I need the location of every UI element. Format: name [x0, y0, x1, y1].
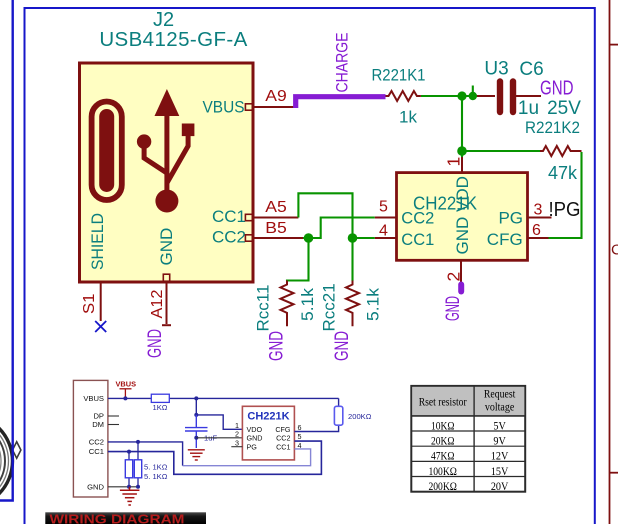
inset chip pin numbers — [235, 421, 302, 450]
no-connect X — [95, 321, 106, 332]
svg-text:25V: 25V — [547, 98, 581, 119]
logo arcs bottom-left (clipped circular emblem) — [0, 415, 21, 508]
inset ground (cap) — [188, 450, 205, 460]
svg-text:2: 2 — [444, 272, 464, 282]
resistor Rcc21 — [346, 281, 359, 327]
svg-text:4: 4 — [379, 223, 388, 240]
inset resistor 1K — [151, 394, 169, 402]
svg-text:CC1: CC1 — [276, 442, 290, 451]
svg-text:CC2: CC2 — [276, 434, 290, 443]
svg-text:R221K2: R221K2 — [525, 118, 580, 137]
pin CC1 A5 — [245, 214, 298, 220]
inset junction CC1 — [127, 450, 131, 454]
svg-text:A5: A5 — [265, 199, 287, 216]
svg-text:2: 2 — [235, 430, 239, 439]
svg-text:!PG: !PG — [549, 199, 581, 221]
svg-text:CC2: CC2 — [212, 228, 246, 247]
IC U3 CH221K body — [397, 173, 528, 261]
svg-text:1: 1 — [444, 157, 464, 167]
capacitor C6 — [477, 82, 541, 113]
wire VDD net vertical — [461, 96, 463, 157]
svg-text:S1: S1 — [81, 293, 98, 314]
svg-text:1u: 1u — [518, 98, 539, 119]
pin CC2 B5 — [245, 235, 303, 241]
svg-text:CC1: CC1 — [212, 207, 246, 226]
pin 1 VDD stub — [461, 157, 463, 173]
inset DP DM stubs — [108, 416, 119, 425]
pin 3 PG stub — [528, 217, 552, 219]
bus CHARGE (purple) — [296, 97, 386, 108]
USB receptacle pill glyph — [92, 102, 122, 201]
inset junction CC2 — [136, 440, 140, 444]
svg-text:GND: GND — [145, 329, 166, 358]
junction — [457, 146, 467, 156]
svg-text:5.1k: 5.1k — [364, 287, 383, 321]
svg-text:PG: PG — [498, 209, 523, 228]
wire R221K2 to CFG — [549, 152, 582, 238]
pin GND A12 (bottom) — [162, 274, 171, 325]
connector J2 body — [80, 63, 254, 282]
svg-text:47KΩ: 47KΩ — [431, 451, 455, 463]
svg-text:47k: 47k — [548, 163, 578, 183]
svg-text:PG: PG — [247, 442, 258, 451]
inset wire CC2(conn) to CC1(chip), light — [108, 442, 183, 466]
pin 6 CFG stub — [528, 237, 549, 239]
inset junctions on GND — [127, 485, 131, 489]
inset 5.1K resistors — [128, 452, 130, 487]
svg-text:15V: 15V — [491, 466, 509, 478]
svg-text:CC2: CC2 — [401, 209, 434, 228]
svg-text:3: 3 — [235, 438, 239, 447]
svg-text:6: 6 — [532, 222, 541, 239]
svg-text:C: C — [611, 242, 618, 259]
wire B5 to pin5 — [303, 218, 375, 239]
svg-text:VBUS: VBUS — [203, 98, 245, 117]
resistor Rcc11 — [281, 281, 294, 327]
junction — [304, 233, 314, 243]
pin 2 GND stub — [460, 260, 462, 283]
svg-text:5. 1KΩ: 5. 1KΩ — [144, 463, 168, 472]
svg-text:A12: A12 — [149, 289, 166, 318]
svg-text:DM: DM — [92, 420, 104, 429]
wire to Rcc11 — [287, 238, 309, 281]
pin VBUS A9 — [245, 104, 297, 110]
inset junction — [194, 413, 198, 417]
svg-text:WIRING DIAGRAM: WIRING DIAGRAM — [50, 512, 185, 524]
svg-text:GND: GND — [332, 331, 353, 361]
svg-text:GND: GND — [247, 434, 263, 443]
wire to Rcc21 — [351, 238, 353, 281]
adjacent sheet right (dark red) — [610, 0, 618, 524]
pin 5 CC2 stub — [375, 217, 397, 219]
svg-text:GND: GND — [87, 483, 104, 492]
inset wire CFG to 200K — [294, 398, 338, 431]
junction — [457, 91, 466, 100]
svg-text:CFG: CFG — [487, 230, 523, 249]
svg-text:B5: B5 — [265, 220, 287, 237]
svg-text:5V: 5V — [493, 420, 506, 432]
svg-text:GND: GND — [540, 78, 574, 100]
svg-text:12V: 12V — [491, 451, 509, 463]
svg-text:R221K1: R221K1 — [372, 66, 426, 85]
svg-text:9V: 9V — [493, 435, 506, 447]
svg-text:U3: U3 — [484, 59, 508, 80]
inset VBUS power flag — [120, 389, 132, 399]
resistor R221K1 — [386, 91, 421, 101]
inset wire chip GND pin2 — [196, 437, 242, 439]
svg-text:CC2: CC2 — [89, 437, 104, 446]
wire stub up — [472, 86, 474, 97]
junction — [348, 233, 358, 243]
svg-text:VBUS: VBUS — [83, 394, 104, 403]
inset chip CH221K box — [242, 406, 294, 460]
svg-text:5. 1KΩ: 5. 1KΩ — [144, 472, 168, 481]
svg-text:CC1: CC1 — [89, 447, 104, 456]
inset pin3 stub — [231, 446, 242, 448]
inset resistor 200K — [334, 406, 342, 425]
svg-text:6: 6 — [298, 423, 302, 432]
svg-text:Rset resistor: Rset resistor — [419, 397, 467, 409]
svg-text:Rcc21: Rcc21 — [320, 283, 339, 331]
inset junction — [123, 396, 127, 400]
inset ground (main) — [120, 487, 139, 505]
wire A5 to pin4 (over the top) — [298, 193, 352, 238]
svg-text:200KΩ: 200KΩ — [428, 481, 457, 493]
svg-text:GND: GND — [267, 331, 288, 361]
svg-text:GND: GND — [443, 296, 464, 321]
bus stub (purple) — [458, 285, 464, 292]
svg-text:CC1: CC1 — [401, 230, 434, 249]
svg-text:20V: 20V — [491, 481, 509, 493]
svg-text:200KΩ: 200KΩ — [348, 412, 372, 421]
USB trident glyph — [137, 89, 195, 213]
inset wire CC1(conn) to CC2(chip), dark — [108, 441, 322, 474]
inset capacitor 1uF — [185, 415, 208, 448]
inset VBUS wire — [108, 397, 339, 399]
svg-text:CHARGE: CHARGE — [334, 33, 352, 93]
svg-text:20KΩ: 20KΩ — [431, 435, 455, 447]
svg-text:voltage: voltage — [485, 402, 515, 414]
svg-text:VBUS: VBUS — [116, 380, 137, 389]
inset connector box — [73, 380, 108, 497]
svg-text:Request: Request — [484, 389, 516, 401]
inset wire VDD branch — [196, 398, 242, 429]
pin S1 (bottom) — [100, 282, 102, 321]
svg-text:3: 3 — [534, 202, 543, 219]
svg-text:1k: 1k — [399, 108, 417, 127]
svg-text:USB4125-GF-A: USB4125-GF-A — [99, 28, 247, 51]
wire junction dot2 to pin4 — [353, 237, 375, 239]
wire R221K1 to junction — [421, 95, 477, 97]
svg-text:1KΩ: 1KΩ — [153, 403, 168, 412]
junction — [469, 92, 477, 100]
svg-text:5: 5 — [379, 199, 388, 216]
svg-text:10KΩ: 10KΩ — [431, 420, 455, 432]
svg-text:100KΩ: 100KΩ — [428, 466, 457, 478]
svg-text:5.1k: 5.1k — [298, 287, 317, 321]
svg-text:CH221K: CH221K — [247, 411, 289, 423]
pin 4 CC1 stub — [375, 237, 397, 239]
svg-text:Rcc11: Rcc11 — [254, 285, 273, 332]
resistor R221K2 — [540, 146, 582, 156]
svg-text:5: 5 — [298, 432, 302, 441]
inset junction — [194, 396, 198, 400]
svg-text:A9: A9 — [265, 88, 287, 105]
svg-text:VDD: VDD — [453, 176, 472, 212]
svg-text:GND: GND — [453, 217, 472, 255]
wire to R221K2 — [462, 150, 541, 152]
inset junction cap/GND — [194, 436, 198, 440]
adjacent sheet frame left — [0, 0, 13, 501]
svg-text:GND: GND — [157, 228, 176, 266]
svg-text:SHIELD: SHIELD — [88, 213, 107, 270]
inset GND wire — [108, 486, 138, 488]
